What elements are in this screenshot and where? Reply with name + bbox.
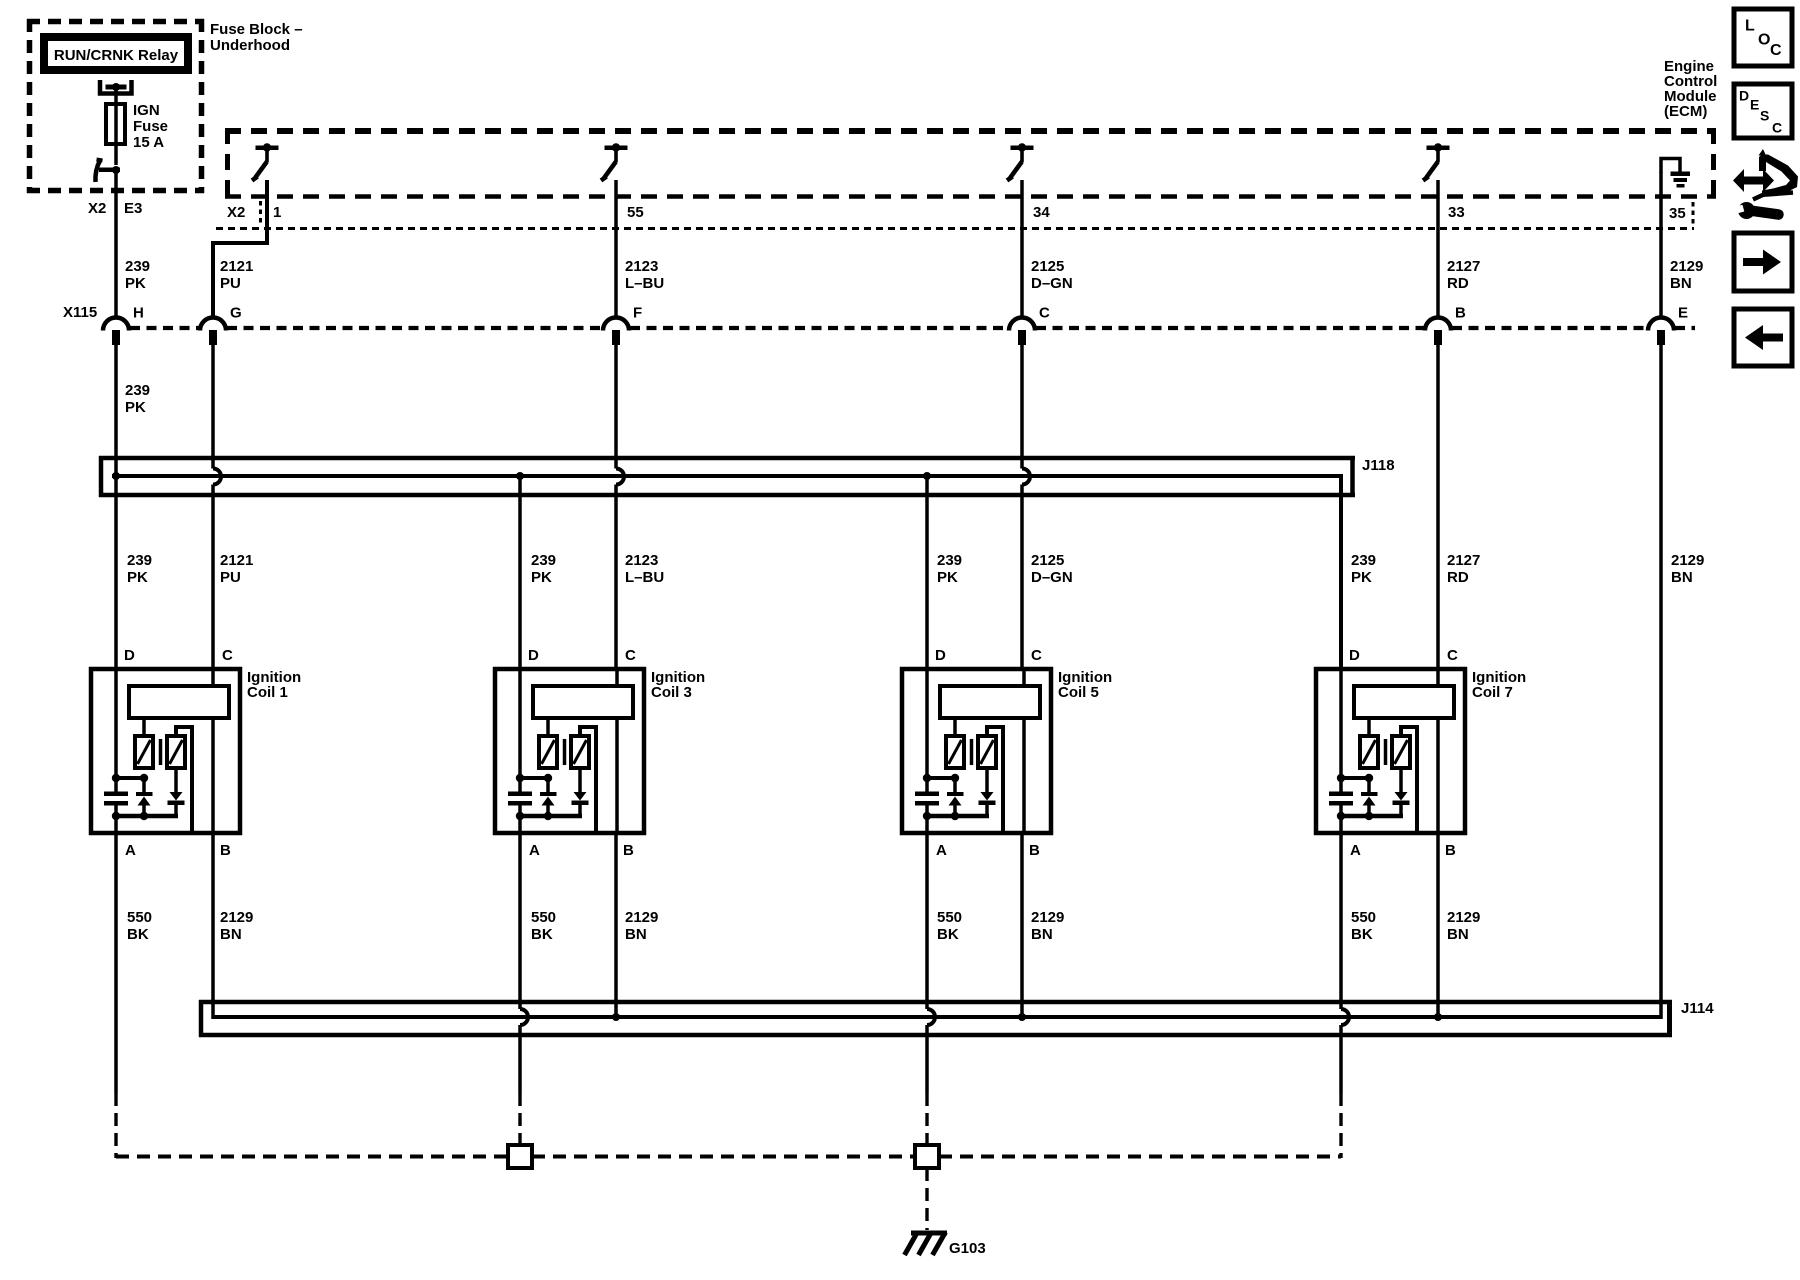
svg-text:2129: 2129 [1671,552,1704,569]
svg-text:G103: G103 [949,1240,986,1257]
svg-text:550: 550 [531,909,556,926]
svg-text:F: F [633,305,642,322]
svg-text:X115: X115 [63,304,97,321]
svg-text:B: B [1445,842,1456,859]
svg-text:2121: 2121 [220,552,253,569]
svg-text:C: C [625,647,636,664]
svg-text:239: 239 [125,382,150,399]
svg-text:A: A [529,842,540,859]
svg-text:(ECM): (ECM) [1664,103,1707,120]
svg-text:550: 550 [127,909,152,926]
svg-text:C: C [1772,120,1782,136]
svg-text:S: S [1760,108,1769,124]
svg-text:IGN: IGN [133,102,160,119]
svg-text:RD: RD [1447,275,1469,292]
svg-text:2129: 2129 [625,909,658,926]
svg-text:G: G [230,305,242,322]
svg-text:2123: 2123 [625,258,658,275]
svg-text:E3: E3 [124,200,142,217]
svg-text:E: E [1750,97,1759,113]
svg-text:239: 239 [127,552,152,569]
svg-text:D: D [1349,647,1360,664]
svg-text:BK: BK [1351,926,1373,943]
svg-text:PU: PU [220,275,241,292]
svg-text:D: D [1739,88,1749,104]
svg-text:Fuse Block –: Fuse Block – [210,21,303,38]
svg-text:RUN/CRNK Relay: RUN/CRNK Relay [54,47,179,64]
svg-text:O: O [1758,32,1770,49]
svg-text:1: 1 [273,204,281,221]
svg-text:J118: J118 [1362,457,1395,474]
svg-text:D: D [528,647,539,664]
svg-text:J114: J114 [1681,1000,1714,1017]
svg-text:B: B [623,842,634,859]
svg-text:C: C [222,647,233,664]
svg-text:BK: BK [127,926,149,943]
svg-text:2129: 2129 [1670,258,1703,275]
svg-text:L–BU: L–BU [625,275,664,292]
svg-text:A: A [125,842,136,859]
svg-text:X2: X2 [227,204,245,221]
svg-text:BN: BN [625,926,647,943]
svg-text:Underhood: Underhood [210,37,290,54]
svg-text:BN: BN [220,926,242,943]
svg-text:PK: PK [125,275,146,292]
svg-text:C: C [1770,42,1782,59]
svg-text:2125: 2125 [1031,258,1064,275]
svg-text:PK: PK [125,399,146,416]
svg-text:BK: BK [531,926,553,943]
svg-text:E: E [1678,305,1688,322]
svg-text:239: 239 [125,258,150,275]
svg-text:B: B [1455,305,1466,322]
svg-text:2127: 2127 [1447,258,1480,275]
svg-text:2127: 2127 [1447,552,1480,569]
svg-text:BN: BN [1447,926,1469,943]
svg-text:PK: PK [1351,569,1372,586]
svg-text:34: 34 [1033,204,1050,221]
svg-text:239: 239 [1351,552,1376,569]
svg-text:BK: BK [937,926,959,943]
svg-text:Coil 5: Coil 5 [1058,684,1099,701]
svg-text:A: A [936,842,947,859]
svg-text:2123: 2123 [625,552,658,569]
svg-text:Fuse: Fuse [133,118,168,135]
svg-text:15 A: 15 A [133,134,164,151]
svg-text:BN: BN [1670,275,1692,292]
svg-text:2121: 2121 [220,258,253,275]
svg-text:239: 239 [531,552,556,569]
svg-text:D–GN: D–GN [1031,569,1073,586]
svg-text:C: C [1039,305,1050,322]
svg-text:PK: PK [937,569,958,586]
svg-text:X2: X2 [88,200,106,217]
svg-text:H: H [133,305,144,322]
svg-text:Coil 3: Coil 3 [651,684,692,701]
svg-text:BN: BN [1031,926,1053,943]
svg-text:L: L [1745,18,1755,35]
svg-text:2129: 2129 [1447,909,1480,926]
svg-text:L–BU: L–BU [625,569,664,586]
svg-text:35: 35 [1669,205,1686,222]
svg-text:D: D [935,647,946,664]
svg-text:PU: PU [220,569,241,586]
svg-text:BN: BN [1671,569,1693,586]
svg-text:D–GN: D–GN [1031,275,1073,292]
svg-text:550: 550 [937,909,962,926]
svg-text:239: 239 [937,552,962,569]
svg-text:RD: RD [1447,569,1469,586]
svg-text:PK: PK [127,569,148,586]
svg-text:2129: 2129 [220,909,253,926]
svg-text:550: 550 [1351,909,1376,926]
svg-text:2129: 2129 [1031,909,1064,926]
svg-text:D: D [124,647,135,664]
svg-text:2125: 2125 [1031,552,1064,569]
svg-text:Coil 7: Coil 7 [1472,684,1513,701]
svg-text:B: B [1029,842,1040,859]
svg-text:Coil 1: Coil 1 [247,684,288,701]
svg-text:B: B [220,842,231,859]
svg-text:C: C [1031,647,1042,664]
svg-text:C: C [1447,647,1458,664]
svg-text:55: 55 [627,204,644,221]
svg-text:33: 33 [1448,204,1465,221]
svg-text:PK: PK [531,569,552,586]
svg-text:A: A [1350,842,1361,859]
